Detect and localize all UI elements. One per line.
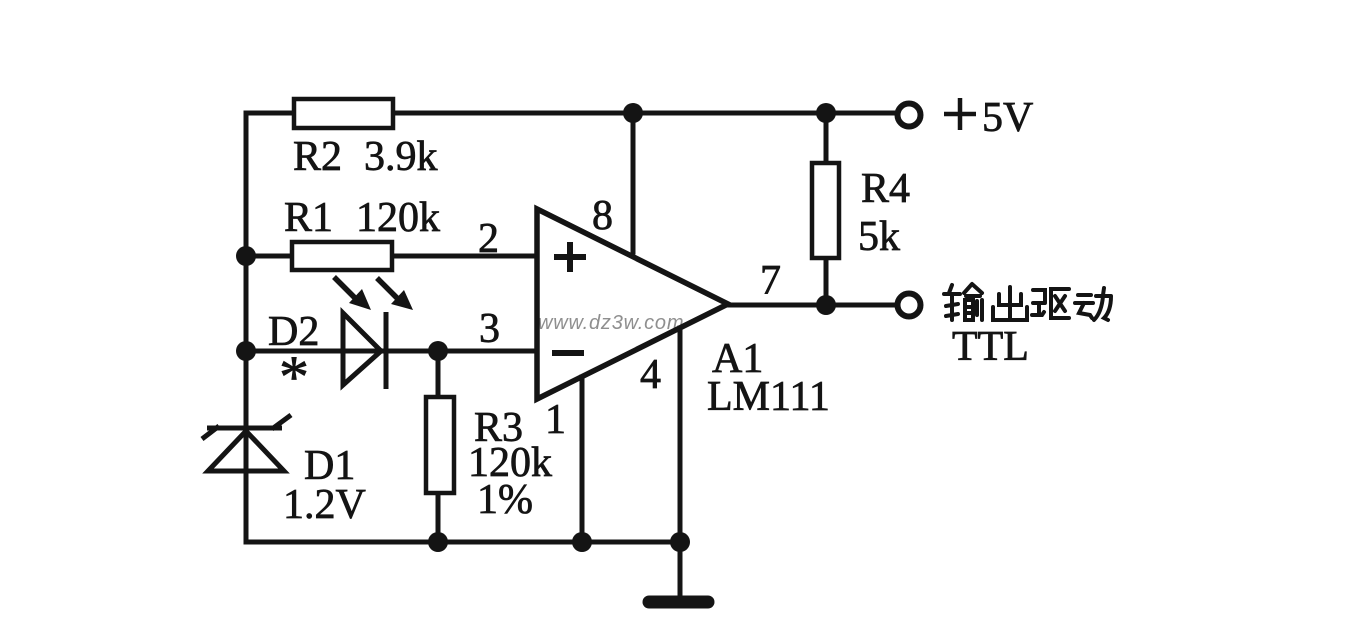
svg-text:3.9k: 3.9k — [364, 134, 438, 180]
svg-text:7: 7 — [760, 258, 781, 304]
resistor R3 — [426, 397, 454, 493]
svg-text:3: 3 — [479, 306, 500, 352]
junction node D2-left — [236, 341, 256, 361]
wire pin4 / ground drop — [678, 328, 683, 596]
svg-text:R4: R4 — [861, 166, 910, 212]
label 输出驱动 (drawn strokes) — [944, 284, 1111, 320]
junction node R3 bottom — [428, 532, 448, 552]
char 输 — [944, 284, 982, 320]
junction node R1-left — [236, 246, 256, 266]
svg-text:4: 4 — [640, 352, 661, 398]
resistor R2 — [294, 99, 393, 128]
label +5V plus sign — [944, 98, 976, 130]
D2 light arrow left — [334, 277, 371, 310]
svg-text:LM111: LM111 — [707, 374, 830, 420]
svg-text:5k: 5k — [858, 214, 900, 260]
wire bottom rail — [246, 540, 680, 545]
wire R4 branch — [824, 113, 829, 305]
op-amp minus input — [552, 350, 584, 356]
ground — [649, 596, 708, 609]
svg-text:*: * — [279, 344, 309, 410]
svg-text:120k: 120k — [356, 195, 440, 241]
svg-text:www.dz3w.com: www.dz3w.com — [538, 312, 684, 334]
junction node R4 bottom / pin7 — [816, 295, 836, 315]
resistor R4 — [812, 163, 839, 258]
svg-text:8: 8 — [592, 193, 613, 239]
wire top rail — [246, 111, 895, 116]
wire R3 branch — [436, 351, 441, 542]
wire pin3 (D2 row) — [246, 349, 537, 354]
junction node pin8 top — [623, 103, 643, 123]
svg-text:2: 2 — [478, 216, 499, 262]
svg-text:TTL: TTL — [952, 324, 1029, 370]
junction node R3 top — [428, 341, 448, 361]
svg-text:R2: R2 — [293, 134, 342, 180]
wire pin7 output — [728, 303, 895, 308]
svg-text:R1: R1 — [284, 195, 333, 241]
junction node pin1 bottom — [572, 532, 592, 552]
D2 light arrow right — [377, 278, 413, 310]
resistor R1 — [292, 242, 392, 270]
photodiode D2 — [343, 312, 386, 389]
zener diode D1 — [202, 415, 291, 471]
svg-text:1.2V: 1.2V — [283, 482, 366, 528]
wire pin8 drop — [631, 113, 636, 252]
junction node R4 top — [816, 103, 836, 123]
svg-text:1%: 1% — [477, 477, 533, 523]
terminal +5V — [898, 104, 921, 127]
svg-text:5V: 5V — [982, 95, 1033, 141]
op-amp A1 triangle — [537, 209, 728, 399]
op-amp plus input — [554, 242, 586, 272]
wire pin1 drop — [580, 377, 585, 542]
char 驱 — [1032, 289, 1069, 318]
svg-text:1: 1 — [545, 397, 566, 443]
char 出 — [993, 287, 1027, 320]
char 动 — [1075, 288, 1111, 320]
junction node pin4 / ground — [670, 532, 690, 552]
terminal output — [898, 294, 921, 317]
wire pin2 (R1 row) — [246, 254, 537, 259]
wire left rail — [244, 113, 249, 542]
